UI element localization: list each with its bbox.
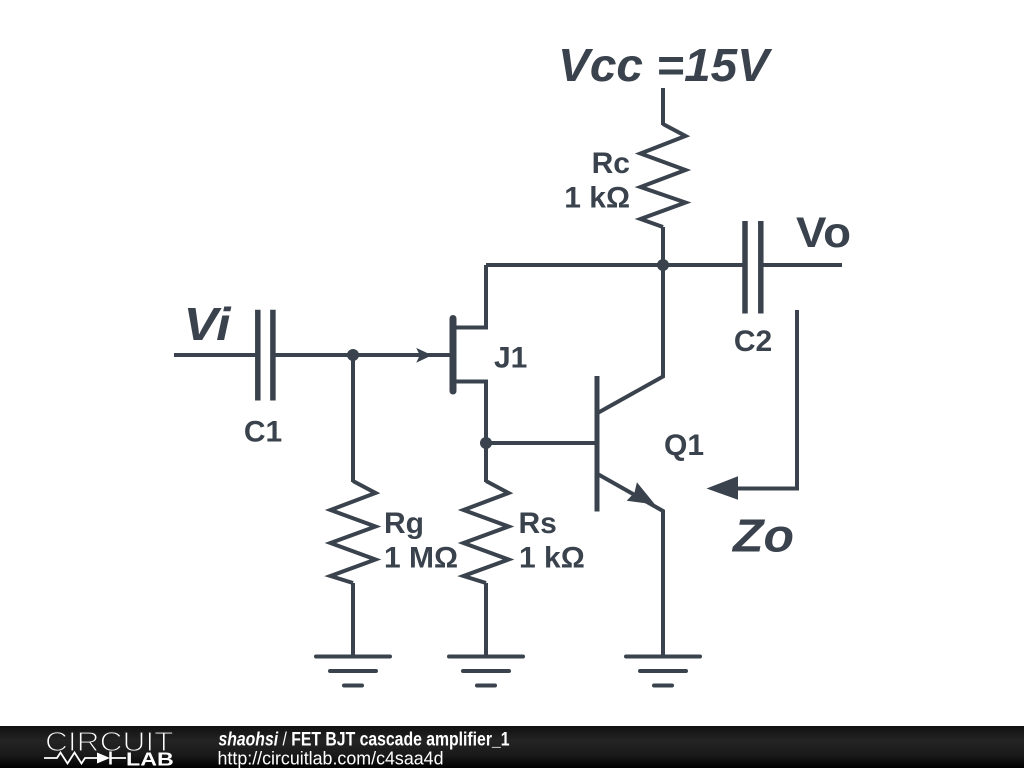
- resistor Rc: [641, 124, 686, 227]
- resistor Rg: [331, 481, 376, 583]
- svg-text:C1: C1: [244, 416, 282, 449]
- BJT collector lead: [599, 265, 664, 413]
- wire Rs to ground: [484, 583, 488, 657]
- resistor Rs: [464, 481, 509, 583]
- svg-text:C2: C2: [734, 325, 772, 358]
- svg-text:Q1: Q1: [664, 429, 704, 462]
- svg-text:Rs: Rs: [519, 507, 557, 540]
- wire node to JFET gate: [353, 353, 450, 357]
- Zo arrowhead: [707, 476, 739, 499]
- JFET source lead: [456, 382, 486, 444]
- svg-text:shaohsi / FET BJT cascade ampl: shaohsi / FET BJT cascade amplifier_1: [219, 730, 510, 751]
- wire C1 to node: [273, 353, 353, 357]
- wire node to Rs: [484, 443, 488, 482]
- ground 1: [316, 657, 390, 686]
- svg-text:http://circuitlab.com/c4saa4d: http://circuitlab.com/c4saa4d: [218, 749, 444, 768]
- wire source node to BJT base: [486, 441, 595, 445]
- BJT emitter arrowhead: [627, 482, 655, 504]
- svg-text:Zo: Zo: [731, 510, 794, 562]
- svg-text:Vo: Vo: [796, 209, 851, 257]
- wire node to Rg: [351, 355, 355, 482]
- capacitor C2: [745, 221, 761, 314]
- node input junction: [347, 349, 359, 361]
- wire C2 to Vo: [761, 263, 842, 267]
- node junction collector rail: [657, 259, 669, 271]
- svg-text:Vcc =15V: Vcc =15V: [558, 39, 772, 91]
- svg-text:1 MΩ: 1 MΩ: [384, 542, 458, 575]
- svg-text:Rg: Rg: [384, 507, 424, 540]
- BJT Q1 base bar: [595, 376, 600, 512]
- ground 3: [626, 657, 700, 686]
- wire Rg to ground: [351, 583, 355, 657]
- node source junction: [480, 437, 492, 449]
- wire Rc to node: [661, 227, 665, 265]
- svg-text:Vi: Vi: [184, 298, 232, 350]
- JFET gate arrowhead: [416, 348, 432, 363]
- capacitor C1: [258, 310, 273, 401]
- svg-text:J1: J1: [494, 342, 527, 375]
- wire node to C2: [663, 263, 745, 267]
- wire top rail drain to node: [486, 263, 663, 267]
- wire Vcc to Rc: [661, 88, 665, 125]
- JFET J1 channel bar: [450, 319, 457, 392]
- svg-text:Rc: Rc: [592, 147, 630, 180]
- ground 2: [449, 657, 523, 686]
- impedance probe Zo wire: [735, 310, 797, 489]
- wire Vi input: [174, 353, 258, 357]
- svg-text:LAB: LAB: [126, 750, 174, 768]
- JFET drain lead: [456, 265, 486, 328]
- logo resistor-diode symbol: [44, 752, 126, 765]
- BJT emitter lead: [599, 475, 664, 657]
- svg-text:1 kΩ: 1 kΩ: [564, 182, 630, 215]
- svg-text:1 kΩ: 1 kΩ: [519, 542, 585, 575]
